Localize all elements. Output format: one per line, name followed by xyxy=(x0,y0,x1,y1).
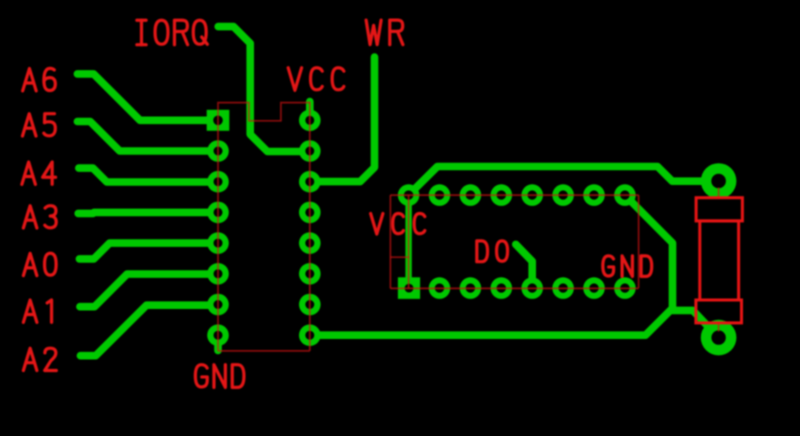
wire A1 to U1 pin6 xyxy=(80,274,218,307)
IC U2 top pad 13 xyxy=(491,184,513,206)
IC U1 pin16 pad xyxy=(299,110,321,132)
wire A2 to U1 pin7 xyxy=(80,305,218,356)
net line U2 bottom row xyxy=(390,287,638,289)
IC U1 pin1 square pad xyxy=(207,110,230,131)
resistor R1 top cap outline xyxy=(696,198,742,221)
label A1 xyxy=(23,300,51,322)
IC U2 top pad 9 xyxy=(614,184,636,206)
label A5 xyxy=(22,114,55,136)
resistor R1 pad 1 (top) xyxy=(701,163,737,199)
IC U1 pin9 pad xyxy=(299,324,321,346)
IC U1 pin14 pad xyxy=(299,171,321,193)
resistor R1 pad 2 (bottom) xyxy=(701,320,737,356)
IC U2 bottom pad 2 xyxy=(429,277,451,299)
IC U2 top pad 12 xyxy=(521,184,543,206)
IC U1 pin7 pad xyxy=(207,294,229,316)
IC U2 bottom pad 4 xyxy=(491,277,513,299)
wire GND branch to R1 pad2 xyxy=(673,310,719,337)
IC U2 bottom pad 8 xyxy=(614,277,636,299)
IC U1 pin10 pad xyxy=(299,294,321,316)
IC U2 bottom pad 5 xyxy=(521,277,543,299)
wire A6 to U1 pin1 xyxy=(77,74,218,120)
net line R1 top centerline xyxy=(718,188,720,199)
wire U2 VCC pin1 to square pad xyxy=(405,195,411,288)
wire GND stub U1 pin8 xyxy=(214,335,222,350)
label A2 xyxy=(23,348,56,370)
wire WR to U1 pin14 xyxy=(310,57,375,182)
IC U1 pin4 pad xyxy=(207,202,229,224)
IC U1 pin11 pad xyxy=(299,263,321,285)
IC U2 square pad (pin1) xyxy=(398,277,420,299)
net line U1 left column xyxy=(217,120,219,351)
IC U1 pin13 pad xyxy=(299,202,321,224)
IC U2 top pad 11 xyxy=(552,184,574,206)
IC U1 pin15 pad xyxy=(299,140,321,162)
label A0 xyxy=(23,253,56,275)
label VCC U2 xyxy=(371,214,425,235)
net line U1 bottom xyxy=(218,350,310,352)
label A3 xyxy=(23,206,56,228)
wire A4 to U1 pin3 xyxy=(79,168,218,182)
wire A3 to U1 pin4 xyxy=(78,212,218,213)
wire DO to U2 bottom pad5 xyxy=(516,244,532,288)
label WR xyxy=(366,20,403,44)
IC U1 pin3 pad xyxy=(207,171,229,193)
label IORQ xyxy=(137,20,207,44)
label A4 xyxy=(22,162,56,184)
net line U2 left stub xyxy=(390,256,409,258)
wire VCC stub U1 pin16 xyxy=(306,102,314,121)
IC U1 pin2 pad xyxy=(207,140,229,162)
label A6 xyxy=(23,68,56,90)
IC U1 pin12 pad xyxy=(299,232,321,254)
IC U2 bottom pad 3 xyxy=(460,277,482,299)
IC U2 top pad 16 xyxy=(398,184,420,206)
IC U2 top pad 10 xyxy=(583,184,605,206)
IC U1 pin5 pad xyxy=(207,232,229,254)
label DO xyxy=(477,241,508,262)
wire A0 to U1 pin5 xyxy=(79,243,218,259)
IC U2 top pad 15 xyxy=(429,184,451,206)
wire U2 pad1 to R1 pad1 xyxy=(409,167,719,196)
label GND U2 xyxy=(603,256,652,277)
resistor R1 body outline xyxy=(700,221,739,300)
IC U1 pin6 pad xyxy=(207,263,229,285)
label VCC U1 xyxy=(288,68,344,91)
IC U1 pin8 pad xyxy=(207,324,229,346)
IC U2 bottom pad 7 xyxy=(583,277,605,299)
net line U1 right column xyxy=(309,102,311,351)
wire IORQ to U1 pin15 xyxy=(218,27,310,152)
wire GND bus U1 pin9 to U2 pad8 xyxy=(310,195,673,335)
net line R1 bottom centerline xyxy=(718,323,720,332)
net line U2 right edge xyxy=(638,195,640,288)
label GND U1 xyxy=(195,365,244,388)
net line U2 top row xyxy=(390,194,638,196)
wire A5 to U1 pin2 xyxy=(77,122,218,152)
net line U2 pin1 to square pad xyxy=(408,195,410,288)
IC U2 top pad 14 xyxy=(460,184,482,206)
resistor R1 bottom cap outline xyxy=(696,300,742,323)
IC U2 bottom pad 6 xyxy=(552,277,574,299)
net line U2 left edge xyxy=(389,195,391,288)
net line U1 top staircase xyxy=(218,103,310,121)
